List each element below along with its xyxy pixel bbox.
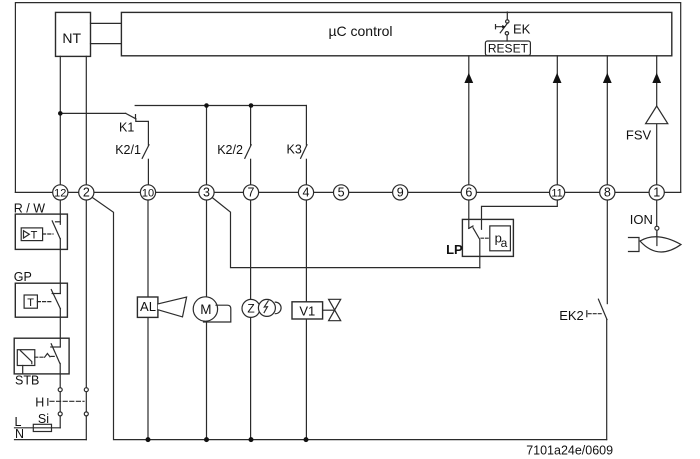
svg-text:T: T	[31, 230, 38, 242]
svg-text:10: 10	[142, 187, 154, 199]
svg-text:a: a	[501, 236, 508, 250]
svg-text:2: 2	[83, 185, 90, 199]
svg-text:EK2: EK2	[559, 308, 584, 323]
svg-text:7: 7	[248, 185, 255, 199]
svg-text:T: T	[27, 297, 34, 309]
svg-text:V1: V1	[299, 303, 315, 318]
svg-text:K2/1: K2/1	[115, 143, 141, 157]
svg-text:H: H	[35, 395, 44, 409]
svg-text:1: 1	[653, 185, 660, 199]
svg-text:Z: Z	[247, 302, 254, 316]
svg-text:R / W: R / W	[14, 202, 45, 216]
svg-text:9: 9	[397, 185, 404, 199]
svg-text:ION: ION	[630, 212, 653, 227]
svg-text:6: 6	[465, 185, 472, 199]
svg-text:AL: AL	[140, 299, 156, 314]
svg-text:N: N	[15, 427, 24, 441]
svg-text:12: 12	[54, 187, 66, 199]
svg-text:FSV: FSV	[626, 127, 652, 142]
svg-text:K2/2: K2/2	[217, 143, 243, 157]
svg-text:5: 5	[338, 185, 345, 199]
svg-text:3: 3	[203, 185, 210, 199]
svg-text:11: 11	[551, 187, 562, 199]
svg-text:µC control: µC control	[328, 23, 392, 39]
svg-text:GP: GP	[14, 270, 32, 284]
svg-text:Si: Si	[38, 412, 49, 426]
svg-text:K3: K3	[287, 142, 302, 156]
svg-text:7101a24e/0609: 7101a24e/0609	[526, 444, 613, 458]
svg-text:4: 4	[303, 185, 310, 199]
svg-text:M: M	[200, 302, 211, 317]
svg-text:8: 8	[604, 185, 611, 199]
svg-text:LP: LP	[446, 242, 463, 257]
svg-text:EK: EK	[513, 22, 531, 37]
svg-text:K1: K1	[119, 121, 134, 135]
svg-text:NT: NT	[62, 30, 81, 46]
svg-text:STB: STB	[15, 374, 39, 388]
svg-text:RESET: RESET	[488, 42, 529, 56]
